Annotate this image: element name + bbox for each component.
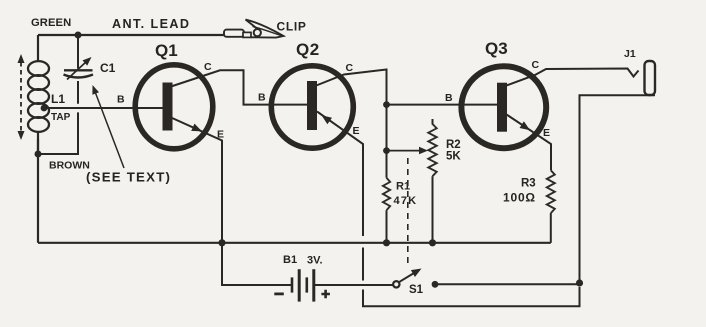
wire Q2 collector [315, 70, 387, 178]
svg-text:J1: J1 [624, 48, 636, 60]
svg-text:C: C [532, 59, 540, 71]
svg-text:100Ω: 100Ω [503, 191, 536, 205]
junction C1/top rail [75, 32, 82, 39]
svg-text:3V.: 3V. [307, 255, 323, 267]
svg-text:E: E [353, 125, 360, 137]
coil L1 [28, 61, 49, 76]
capacitor C1 [77, 35, 79, 69]
wire battery + to S1 [314, 284, 393, 286]
svg-text:B: B [117, 94, 125, 106]
wire S1 to J1 sleeve [435, 283, 580, 285]
transistor Q3 [461, 66, 546, 148]
resistor R3 [547, 170, 555, 213]
tap junction [41, 105, 48, 112]
svg-text:E: E [217, 129, 224, 141]
wire Q2 emitter (pnp arrow) [317, 112, 580, 307]
svg-text:C: C [204, 61, 212, 73]
svg-text:Q1: Q1 [155, 41, 178, 60]
wire Q1 collector to Q2 base [171, 70, 308, 104]
wire top rail [38, 34, 225, 36]
wire Q3 emitter to R3 [505, 114, 551, 171]
svg-text:R2: R2 [446, 139, 461, 151]
svg-text:B: B [445, 92, 453, 104]
wire Q3 collector to J1 tip [505, 69, 639, 87]
wire left rail [37, 35, 39, 243]
transistor Q2 [271, 66, 353, 148]
battery B1 [291, 277, 294, 292]
svg-text:TAP: TAP [51, 112, 71, 123]
svg-text:E: E [543, 127, 550, 139]
dashed gang link R2-S1 [407, 158, 409, 266]
svg-text:B1: B1 [283, 254, 297, 266]
svg-text:BROWN: BROWN [49, 160, 90, 172]
switch S1 [393, 281, 399, 287]
(SEE TEXT) pointer [94, 89, 124, 168]
node R1 top / wiper junction [383, 147, 390, 154]
svg-text:Q3: Q3 [485, 39, 508, 58]
wire Q2 collector to Q3 base [387, 104, 498, 106]
svg-text:47K: 47K [394, 195, 418, 207]
ferrite rod (dashed arrow) [20, 62, 22, 132]
svg-text:L1: L1 [51, 92, 65, 106]
svg-text:B: B [258, 92, 266, 104]
svg-text:C: C [346, 62, 354, 74]
wire ground bus [38, 242, 551, 244]
svg-text:CLIP: CLIP [277, 20, 307, 34]
svg-text:Q2: Q2 [296, 40, 320, 59]
svg-text:C1: C1 [100, 61, 116, 75]
svg-text:R3: R3 [521, 178, 536, 190]
transistor Q1 [135, 65, 213, 149]
resistor R2 (5K pot) [432, 119, 434, 125]
wire wiper to R2 [387, 150, 422, 152]
svg-text:(SEE TEXT): (SEE TEXT) [86, 170, 171, 185]
junction BROWN node [35, 151, 42, 158]
jack J1 [645, 61, 656, 95]
wire tap to Q1 base [44, 107, 163, 109]
wire Q1 emitter down [171, 118, 292, 286]
svg-text:S1: S1 [409, 284, 424, 296]
svg-text:5K: 5K [446, 151, 461, 163]
svg-text:GREEN: GREEN [31, 17, 71, 29]
svg-text:ANT. LEAD: ANT. LEAD [112, 17, 190, 31]
resistor R1 [383, 178, 390, 210]
clip [224, 30, 244, 37]
